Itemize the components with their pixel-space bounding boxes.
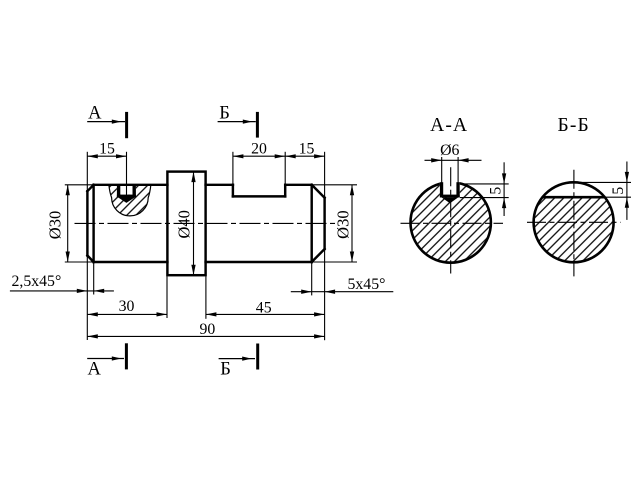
svg-text:Ø30: Ø30 <box>46 211 65 239</box>
svg-text:5: 5 <box>487 187 504 195</box>
svg-text:5x45°: 5x45° <box>348 276 386 293</box>
svg-text:90: 90 <box>200 321 216 338</box>
svg-text:А-А: А-А <box>430 115 468 136</box>
svg-text:30: 30 <box>119 298 135 315</box>
svg-text:Б: Б <box>220 360 231 380</box>
svg-text:А: А <box>88 103 102 123</box>
svg-text:2,5x45°: 2,5x45° <box>12 273 62 290</box>
svg-text:А: А <box>88 360 102 380</box>
svg-text:45: 45 <box>256 299 272 316</box>
svg-text:15: 15 <box>299 141 315 158</box>
svg-text:Ø30: Ø30 <box>334 210 353 238</box>
svg-text:5: 5 <box>610 187 627 195</box>
svg-text:Ø6: Ø6 <box>440 142 459 159</box>
svg-text:15: 15 <box>99 141 115 158</box>
svg-text:Б: Б <box>219 104 230 124</box>
svg-text:Ø40: Ø40 <box>175 210 194 238</box>
svg-text:Б-Б: Б-Б <box>557 115 590 136</box>
svg-text:20: 20 <box>251 141 267 158</box>
